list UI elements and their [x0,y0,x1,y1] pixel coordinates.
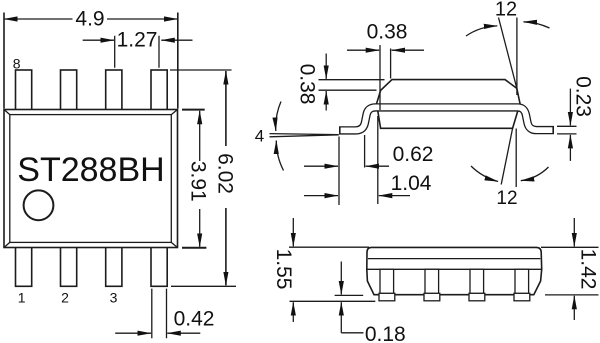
svg-text:8: 8 [13,56,21,72]
svg-text:0.42: 0.42 [174,308,215,331]
svg-text:0.18: 0.18 [365,323,406,343]
svg-text:0.38: 0.38 [367,21,408,44]
svg-text:1: 1 [18,289,26,305]
svg-text:2: 2 [61,289,69,305]
svg-text:4.9: 4.9 [75,8,104,31]
svg-text:0.62: 0.62 [393,143,434,166]
svg-text:1.27: 1.27 [117,28,158,51]
svg-text:4: 4 [255,127,264,146]
svg-text:1.55: 1.55 [272,249,295,290]
svg-text:1.04: 1.04 [391,172,432,195]
svg-text:12: 12 [495,0,517,21]
svg-text:3: 3 [110,289,118,305]
svg-text:12: 12 [496,188,517,209]
svg-text:ST288BH: ST288BH [17,151,164,189]
svg-text:0.23: 0.23 [572,76,595,117]
svg-text:0.38: 0.38 [296,64,319,105]
svg-text:3.91: 3.91 [186,161,209,202]
svg-text:6.02: 6.02 [213,153,236,194]
svg-text:1.42: 1.42 [577,249,600,290]
